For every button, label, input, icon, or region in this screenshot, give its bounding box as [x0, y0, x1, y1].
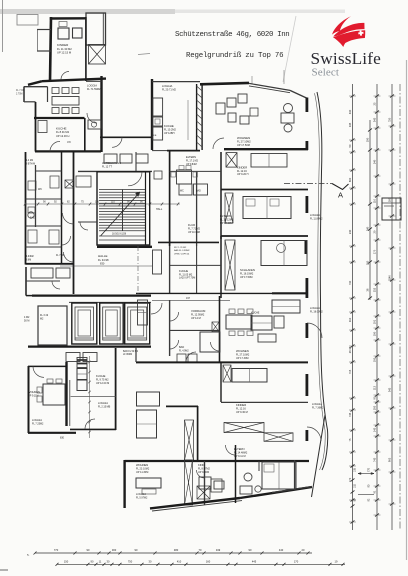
- bottom dimension line 2: [57, 563, 345, 565]
- svg-text:FL 20.71 M2: FL 20.71 M2: [162, 88, 177, 91]
- eltern-C divider wall: [221, 401, 308, 403]
- dimension 197 line: [152, 299, 230, 301]
- bottom line2 ticks: [56, 563, 59, 566]
- kind-E furniture: [199, 477, 211, 489]
- svg-text:300: 300: [112, 548, 117, 552]
- bottom-left apartment outer walls: [28, 366, 30, 433]
- section A check arrow: [332, 184, 349, 190]
- schlafen top walls: [158, 241, 219, 243]
- dimension ticks chain4: [390, 95, 394, 98]
- svg-text:240: 240: [373, 159, 377, 164]
- elevator shaft 2: [100, 303, 124, 344]
- right small detail box: [382, 198, 401, 220]
- svg-text:8 BTH M: 8 BTH M: [26, 163, 35, 165]
- svg-text:FL 34.98: FL 34.98: [98, 258, 109, 262]
- right lower dimension cluster vertical: [351, 465, 355, 468]
- svg-text:BAD: BAD: [179, 346, 184, 349]
- svg-text:FL 7.25M2: FL 7.25M2: [32, 422, 44, 425]
- kinder-A left stub walls: [37, 29, 51, 31]
- svg-text:FL 18.09M2: FL 18.09M2: [310, 310, 323, 313]
- kitchen-A outer left wall: [35, 102, 37, 152]
- left wall segment above elevators: [25, 267, 27, 296]
- bath fixtures top-right: [284, 104, 293, 113]
- SwissLife logo flag upper comma band: [332, 16, 351, 34]
- svg-text:LF/BO LUFT.04: LF/BO LUFT.04: [174, 253, 190, 255]
- wohnen-D inner wall line: [69, 380, 71, 426]
- row4 door arcs: [170, 312, 179, 321]
- row5 mid wall horizontal: [166, 405, 198, 407]
- loggia-3 jamb upper: [305, 278, 308, 298]
- top-left detached faint box: [17, 15, 38, 26]
- right building inner edge upper: [315, 93, 320, 300]
- scan artifact left edge line: [2, 0, 4, 52]
- kuche-B small fixture: [154, 171, 162, 179]
- kuche-D divider: [71, 395, 116, 397]
- loggia-4 door arc: [307, 427, 321, 441]
- svg-text:UP 9.30M: UP 9.30M: [198, 471, 209, 474]
- left room divider above elevators: [26, 280, 60, 282]
- bath-E fixtures: [244, 473, 252, 481]
- left wing divider 2: [26, 198, 62, 200]
- svg-text:FL 5.97M2: FL 5.97M2: [136, 496, 148, 499]
- left wing door arcs: [63, 213, 74, 224]
- right jamb at loggia level1: [305, 141, 308, 150]
- kitchen boxes below elevators: [66, 353, 80, 362]
- staircase center divider: [122, 190, 124, 231]
- svg-text:745: 745: [348, 412, 352, 417]
- svg-text:310: 310: [348, 317, 352, 322]
- svg-text:UP 9.11M: UP 9.11M: [28, 394, 38, 397]
- svg-text:UP 9.30 M: UP 9.30 M: [236, 411, 248, 414]
- left wing divider 3: [26, 225, 62, 227]
- svg-text:345: 345: [388, 387, 392, 392]
- corridor wall above stairs: [100, 136, 152, 138]
- left wing corridor wall east: [73, 152, 75, 294]
- dining chairs top row: [52, 88, 59, 94]
- svg-text:480: 480: [174, 548, 179, 552]
- bottom apartment door arc: [197, 470, 205, 478]
- svg-text:BAD FL 3.99M2: BAD FL 3.99M2: [174, 249, 190, 252]
- svg-text:195: 195: [373, 357, 377, 362]
- kitchen-A door arc right: [87, 113, 97, 123]
- kinder-A window squares: [58, 28, 69, 39]
- svg-text:145: 145: [373, 427, 377, 432]
- kitchen-A right wall thick: [100, 76, 102, 152]
- wohnen-D table: [43, 384, 65, 405]
- kitchen-A door arc bottom: [50, 141, 60, 151]
- wohnen-C dining table: [226, 315, 252, 329]
- kitchen-A mid thick wall: [34, 117, 85, 119]
- elevator shaft 3: [125, 303, 150, 344]
- svg-text:26 36: 26 36: [348, 346, 352, 353]
- svg-text:18.5/10 61/28: 18.5/10 61/28: [112, 234, 127, 236]
- loggia-3 door arc: [307, 323, 322, 338]
- svg-text:UP 17.50M: UP 17.50M: [240, 276, 252, 279]
- bottom slanted parallel line: [152, 501, 242, 511]
- svg-text:FL 2.15 MB: FL 2.15 MB: [98, 405, 111, 408]
- kitchen-A inner vertical wall: [84, 118, 86, 151]
- hall small walls below stairs: [78, 221, 97, 223]
- schlafen room left wall: [220, 236, 222, 298]
- right jamb top: [305, 98, 308, 113]
- row4 sink boxes: [177, 354, 186, 362]
- svg-text:UP 10.34M: UP 10.34M: [188, 231, 200, 234]
- kinder-C wardrobe: [223, 365, 231, 382]
- svg-text:750: 750: [388, 117, 392, 122]
- top-right slanted loggia edge double: [249, 83, 290, 90]
- dining table: [52, 97, 79, 106]
- svg-text:349: 349: [216, 548, 221, 552]
- kitchen-D dim line vertical: [89, 356, 91, 438]
- room divider horizontal 172: [170, 170, 221, 172]
- hatched wall top-center: [196, 84, 198, 150]
- wohnen-E couch: [136, 478, 161, 488]
- wohnen-C shelf: [137, 410, 157, 438]
- svg-text:FL 12 TT: FL 12 TT: [102, 166, 112, 169]
- dimension chain line 3: [376, 84, 378, 530]
- svg-text:345: 345: [373, 117, 377, 122]
- svg-text:WC: WC: [38, 188, 42, 191]
- bottom dimension line 1: [35, 552, 312, 554]
- row4 bottom wall: [136, 361, 308, 363]
- svg-text:240: 240: [366, 226, 370, 231]
- kitchen small box: [274, 316, 284, 328]
- bottom apartment top wall full: [125, 460, 309, 462]
- svg-text:AUFBEWANGS: AUFBEWANGS: [102, 161, 121, 165]
- right building outer edge upper: [317, 92, 322, 300]
- svg-text:4.94M2: 4.94M2: [26, 256, 34, 258]
- svg-text:VORRAUM: VORRAUM: [191, 309, 206, 313]
- left wing divider 1: [36, 170, 62, 172]
- svg-text:Select: Select: [312, 66, 339, 78]
- left room door arc above elevators: [52, 281, 60, 289]
- svg-text:KINDER: KINDER: [57, 43, 69, 47]
- svg-text:UP 18.20M: UP 18.20M: [220, 222, 232, 225]
- corridor verticals mid: [169, 150, 171, 246]
- center-left vertical wall upper: [151, 79, 153, 150]
- svg-text:UP 17.50M: UP 17.50M: [237, 143, 250, 147]
- svg-text:UP 12.15 M: UP 12.15 M: [57, 51, 72, 55]
- svg-text:190: 190: [373, 331, 377, 336]
- eltern-B bed: [243, 197, 291, 219]
- svg-text:KUCHE: KUCHE: [251, 312, 260, 315]
- dimension 830 line: [60, 265, 152, 267]
- bottom right corner walls: [294, 460, 296, 490]
- svg-text:UP 12BH: UP 12BH: [164, 132, 175, 135]
- left wing tub room4: [28, 230, 37, 243]
- estern dining table: [177, 170, 192, 184]
- svg-text:1140: 1140: [388, 275, 392, 281]
- svg-text:WOHNEN: WOHNEN: [136, 463, 148, 467]
- right inner edge lower: [318, 300, 325, 470]
- top wall right apartment thick: [200, 83, 249, 84]
- right edge slant to bottom corner: [312, 415, 326, 497]
- svg-text:LF 800M: LF 800M: [123, 354, 132, 356]
- svg-text:345: 345: [348, 122, 352, 127]
- kuche-D right wall: [115, 348, 117, 430]
- svg-text:FL 4.9M2: FL 4.9M2: [179, 350, 189, 352]
- svg-text:Regelgrundriß zu Top 76: Regelgrundriß zu Top 76: [186, 52, 283, 60]
- elevator top wall inner: [69, 301, 151, 303]
- top-right corner wall: [290, 90, 307, 98]
- bottom apartment left jamb: [204, 461, 206, 505]
- wohnen-C sideboard: [258, 334, 276, 342]
- svg-text:160: 160: [366, 260, 370, 265]
- staircase right double wall: [145, 172, 147, 245]
- dimension chain line 2: [369, 120, 371, 300]
- svg-text:110: 110: [373, 198, 377, 203]
- schlafen bottom thick wall right: [272, 292, 308, 294]
- schlafen wardrobe strip tall: [225, 240, 235, 290]
- kitchen-A counter left: [38, 121, 47, 133]
- left wing inner wall upper: [35, 165, 37, 227]
- svg-text:KUCHE: KUCHE: [96, 374, 106, 378]
- bottom apartment inner verticals: [235, 445, 237, 503]
- svg-text:715: 715: [348, 369, 352, 374]
- svg-text:532: 532: [373, 287, 377, 292]
- dining chairs bottom row: [52, 108, 59, 114]
- svg-text:KIND: KIND: [198, 463, 204, 467]
- svg-text:600: 600: [348, 177, 352, 182]
- storage partition: [135, 152, 137, 171]
- interior dimension string: [25, 203, 180, 205]
- svg-text:FLUR: FLUR: [188, 223, 195, 227]
- kuche-D door arc: [85, 419, 95, 429]
- svg-text:UP 11.30M: UP 11.30M: [136, 471, 148, 474]
- svg-text:UP 17.30M: UP 17.30M: [236, 357, 248, 360]
- svg-text:LOGGIA: LOGGIA: [98, 401, 108, 405]
- elevator top wall thick: [32, 295, 151, 297]
- svg-text:730: 730: [348, 280, 352, 285]
- row4 xbox wardrobe: [212, 322, 219, 332]
- dimension ticks chain3: [375, 95, 379, 98]
- svg-text:2.75M: 2.75M: [16, 93, 22, 95]
- svg-text:770: 770: [348, 477, 352, 482]
- elevator door arc right: [151, 303, 162, 314]
- kind-E wardrobe strip: [185, 460, 193, 505]
- svg-text:LA20 UP7.70M: LA20 UP7.70M: [179, 277, 195, 280]
- stair bottom thick wall: [97, 246, 152, 248]
- svg-text:295: 295: [373, 405, 377, 410]
- svg-text:SCHLAFEN: SCHLAFEN: [240, 268, 255, 272]
- window wall left loggia-B: [152, 81, 200, 83]
- svg-text:BAD: BAD: [196, 190, 201, 193]
- svg-text:ELTERN: ELTERN: [186, 155, 196, 159]
- loggia-2 jamb: [305, 196, 308, 213]
- left wing outer wall extension: [26, 295, 32, 297]
- row3 horizontal 265: [170, 264, 221, 266]
- row4 divider horizontal: [170, 329, 220, 331]
- left wing bottom wall: [26, 263, 74, 265]
- svg-text:UP 12.30 H: UP 12.30 H: [56, 134, 69, 138]
- bottom line1 ticks: [34, 552, 37, 555]
- staircase outer box: [97, 172, 150, 245]
- svg-text:ELTERN: ELTERN: [220, 214, 231, 218]
- loggia-4 jambs: [305, 374, 308, 396]
- right lower dimension arrows: [358, 473, 374, 475]
- svg-text:830: 830: [60, 437, 65, 440]
- loggia-3 jamb lower: [305, 323, 308, 338]
- svg-text:160: 160: [206, 559, 211, 563]
- top right apartment room divider: [220, 152, 222, 239]
- staircase landing lines: [99, 235, 145, 237]
- loggia rail stubs above top wall: [283, 70, 285, 84]
- estern chairs: [171, 172, 176, 177]
- kinder-C beds: [232, 369, 267, 383]
- storage room boxes top corridor: [104, 154, 117, 163]
- kuche-D counter boxes: [77, 358, 87, 368]
- bottom apartment left wall: [123, 460, 125, 508]
- staircase up arrowhead: [136, 192, 141, 197]
- kinder-A right wall: [85, 17, 87, 81]
- section A dash-dot line: [284, 183, 332, 185]
- center corridor verticals row3: [169, 246, 171, 294]
- svg-text:905: 905: [388, 457, 392, 462]
- svg-text:750: 750: [128, 559, 133, 563]
- bad-A partition vertical: [47, 87, 49, 102]
- wohnen-B furniture scatter: [216, 103, 225, 114]
- central rooms row4 verticals: [169, 300, 171, 356]
- kind-E extra xbox: [197, 486, 210, 499]
- SwissLife logo swiss cross: [358, 30, 364, 36]
- row3 bottom wall: [136, 292, 272, 294]
- kinder-A small furniture: [59, 22, 67, 27]
- svg-text:WOHNEN: WOHNEN: [237, 136, 250, 140]
- svg-text:BAD FL 52 M2: BAD FL 52 M2: [123, 350, 139, 353]
- wc bad small rooms: [179, 184, 192, 195]
- kinder-B wardrobe xbox: [226, 153, 237, 168]
- kinder-C left wall: [220, 362, 222, 402]
- svg-text:A: A: [338, 191, 343, 200]
- dimension chain line 1: [352, 84, 354, 530]
- mid horizontal wall left segment: [167, 150, 200, 152]
- svg-text:WC 1.76 M2: WC 1.76 M2: [174, 247, 187, 249]
- kinder-A door arc: [61, 72, 69, 80]
- kinder-A bottom diagonal continuation: [28, 81, 42, 85]
- left wing outer wall: [25, 152, 27, 265]
- staircase up diagonal: [101, 192, 141, 236]
- svg-text:FL.71.59M2: FL.71.59M2: [87, 88, 101, 91]
- kuche-B dim line vertical: [187, 100, 189, 140]
- svg-text:770: 770: [368, 467, 371, 472]
- pencil scribble above plan: [138, 54, 150, 55]
- svg-text:197: 197: [186, 297, 191, 300]
- row5 mid wall vertical: [197, 406, 199, 460]
- kinder-A top wall: [50, 17, 86, 20]
- wohnen-D chairs: [37, 387, 42, 393]
- bed-E eltern bed: [262, 462, 296, 489]
- eltern-B wardrobe strip: [225, 193, 233, 223]
- left small boxes above elevators: [31, 268, 53, 278]
- overlay paper edge: [283, 16, 296, 82]
- SwissLife logo flag middle band: [333, 23, 364, 37]
- svg-text:FL 27.10M2: FL 27.10M2: [237, 139, 251, 143]
- wohnen-C sofa: [137, 392, 160, 406]
- svg-text:WC: WC: [180, 191, 184, 193]
- dimension chain line 5 dash-dot: [399, 84, 401, 530]
- svg-text:1.4 M2: 1.4 M2: [26, 160, 34, 162]
- row4 bad box: [200, 332, 220, 352]
- left wing sink room2: [28, 181, 36, 190]
- svg-text:745: 745: [373, 457, 377, 462]
- svg-text:LOGGIA: LOGGIA: [162, 84, 173, 88]
- left wing toilet: [28, 212, 34, 218]
- svg-text:FL 8.91 M2: FL 8.91 M2: [56, 130, 70, 134]
- svg-text:UP 14 M: UP 14 M: [191, 317, 201, 320]
- svg-text:FL 11.89M2: FL 11.89M2: [310, 217, 323, 220]
- wohnen-B bottom wall: [224, 148, 308, 150]
- svg-text:LOGGIA: LOGGIA: [32, 418, 42, 422]
- loggia-2b jamb: [304, 240, 307, 254]
- kinder-A bottom wall slanted: [42, 79, 106, 82]
- wohnen-B door arc: [213, 138, 224, 149]
- dimension chain line 4: [391, 84, 393, 530]
- svg-text:SwissLife: SwissLife: [311, 49, 382, 68]
- svg-text:HALL: HALL: [156, 208, 163, 211]
- eltern-C door arc top: [226, 445, 236, 455]
- bottom slanted outer wall thick: [150, 498, 240, 508]
- kuche-D bottom wall: [70, 428, 116, 430]
- top-left apartment KINDER left wall: [50, 17, 51, 81]
- svg-text:770: 770: [54, 548, 59, 552]
- svg-text:5.: 5.: [27, 553, 30, 557]
- dash-dot vertical through halle: [137, 246, 139, 295]
- svg-text:FL 7.36M2: FL 7.36M2: [312, 406, 324, 409]
- svg-text:FL 11.33 M2: FL 11.33 M2: [57, 47, 72, 51]
- kitchen-C counter right: [251, 316, 272, 330]
- eltern-B bottom wall: [221, 235, 308, 237]
- kuche-B counter boxes: [153, 98, 163, 116]
- svg-text:LOGGIA: LOGGIA: [136, 492, 146, 496]
- eltern-C wide wardrobe 2: [264, 433, 293, 442]
- kuche-C counter: [153, 250, 162, 274]
- svg-text:FL 7.93: FL 7.93: [56, 255, 64, 257]
- schlafen bed: [261, 241, 307, 266]
- kitchen counter left of loggia3: [272, 300, 300, 313]
- corridor door arc below y137: [112, 137, 122, 147]
- svg-text:152: 152: [354, 483, 357, 488]
- svg-text:150: 150: [64, 559, 69, 563]
- elevator shaft 1: [72, 303, 97, 344]
- svg-text:830: 830: [100, 261, 105, 265]
- left wing divider 4: [26, 246, 62, 248]
- dimension ticks chain2: [368, 129, 372, 132]
- svg-text:170: 170: [294, 559, 299, 563]
- left wing corridor fixtures: [76, 176, 91, 187]
- svg-text:190: 190: [366, 137, 370, 142]
- svg-text:113: 113: [373, 385, 377, 390]
- staircase top door arc: [128, 172, 142, 186]
- svg-text:50 M: 50 M: [24, 319, 29, 322]
- eltern-C wardrobe strips: [185, 420, 194, 460]
- eltern-B top wall: [221, 189, 308, 191]
- svg-text:UP 12.00 M: UP 12.00 M: [96, 382, 109, 385]
- svg-text:HALLE: HALLE: [98, 254, 108, 258]
- svg-text:KUCHE: KUCHE: [164, 124, 174, 128]
- svg-text:410: 410: [177, 559, 182, 563]
- right edge paper line: [406, 60, 408, 560]
- eltern-B pillows: [246, 199, 255, 206]
- svg-text:WOHNEN: WOHNEN: [28, 390, 40, 394]
- svg-text:8.6M: 8.6M: [26, 259, 31, 261]
- loggia-A top edge: [86, 80, 102, 82]
- svg-text:UP 9.20 H: UP 9.20 H: [237, 173, 249, 176]
- svg-text:430: 430: [348, 109, 352, 114]
- kuche-C2 counters along wall: [138, 300, 148, 325]
- kitchen-A bottom wall: [35, 150, 101, 152]
- svg-text:105: 105: [354, 467, 357, 472]
- kitchen-A stove box: [88, 120, 101, 129]
